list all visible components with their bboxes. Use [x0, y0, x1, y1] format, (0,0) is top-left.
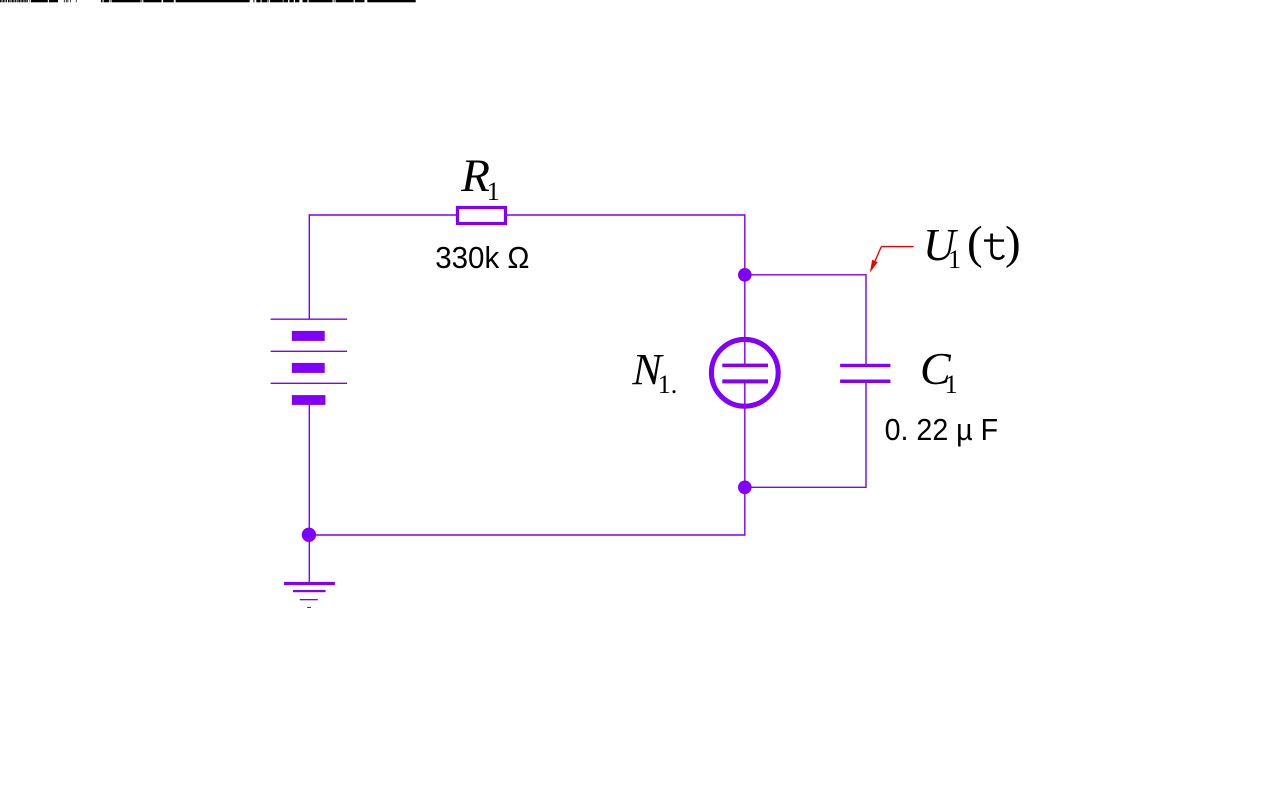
- svg-text:1: 1: [945, 370, 958, 399]
- svg-text:R: R: [460, 150, 490, 202]
- svg-text:0. 22 µ F: 0. 22 µ F: [885, 412, 999, 447]
- svg-text:1: 1: [487, 177, 500, 206]
- svg-text:1.: 1.: [658, 370, 678, 399]
- svg-text:330k Ω: 330k Ω: [435, 240, 529, 275]
- svg-text:(: (: [967, 217, 983, 269]
- svg-text:): ): [1005, 217, 1021, 269]
- svg-text:1: 1: [948, 245, 961, 274]
